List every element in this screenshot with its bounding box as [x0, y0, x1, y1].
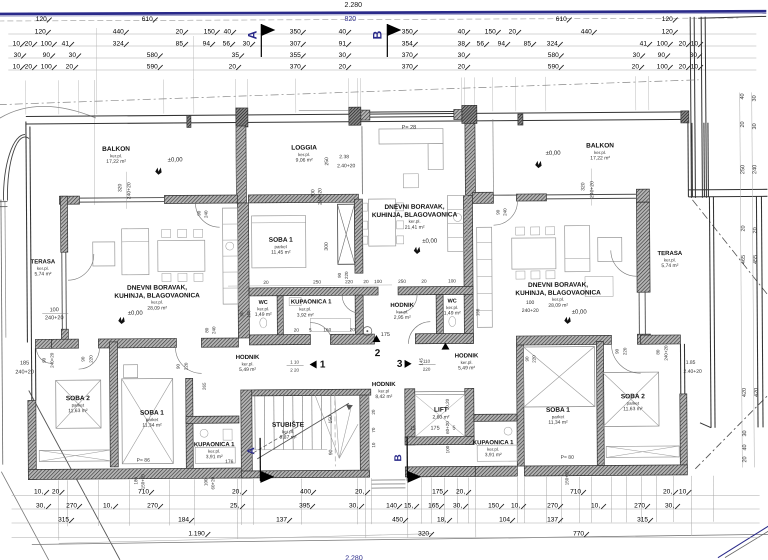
svg-text:SOBA 2: SOBA 2 [621, 393, 645, 400]
svg-text:ker.pl.: ker.pl. [594, 150, 606, 155]
svg-text:40: 40 [339, 29, 347, 36]
svg-text:5: 5 [309, 328, 312, 333]
svg-text:±0,00: ±0,00 [546, 151, 562, 157]
svg-text:450: 450 [392, 516, 403, 523]
svg-text:90: 90 [614, 348, 619, 354]
svg-text:3,91 m²: 3,91 m² [206, 454, 223, 460]
svg-text:SOBA 1: SOBA 1 [546, 407, 570, 414]
svg-text:WC: WC [448, 298, 457, 304]
svg-text:11,63 m²: 11,63 m² [68, 408, 88, 414]
svg-text:370: 370 [402, 52, 413, 59]
svg-text:40: 40 [224, 29, 232, 36]
svg-text:ker.pl.: ker.pl. [552, 297, 564, 302]
svg-text:100: 100 [448, 278, 456, 283]
svg-text:±0,00: ±0,00 [572, 310, 588, 316]
svg-text:10: 10 [679, 488, 687, 495]
svg-text:90: 90 [525, 356, 530, 362]
svg-text:90: 90 [337, 272, 342, 278]
svg-text:3,92 m²: 3,92 m² [297, 312, 314, 318]
svg-text:240: 240 [502, 208, 507, 216]
svg-text:11,63 m²: 11,63 m² [623, 406, 643, 412]
svg-text:150: 150 [204, 29, 215, 36]
svg-text:2.40+20: 2.40+20 [684, 369, 702, 375]
svg-text:ker.pl.: ker.pl. [110, 153, 122, 158]
svg-text:ker.pl.: ker.pl. [208, 449, 220, 454]
svg-text:90: 90 [42, 357, 47, 363]
svg-text:20: 20 [679, 64, 687, 71]
svg-text:455: 455 [753, 255, 759, 264]
svg-text:2 20: 2 20 [290, 368, 299, 373]
svg-text:40: 40 [742, 444, 748, 450]
svg-text:5: 5 [452, 426, 455, 432]
svg-text:100: 100 [657, 41, 668, 48]
svg-text:270: 270 [147, 502, 158, 509]
svg-text:ker.pl: ker.pl [378, 388, 389, 393]
svg-text:580: 580 [147, 52, 158, 59]
svg-text:220: 220 [89, 355, 94, 363]
svg-text:SOBA 1: SOBA 1 [269, 237, 293, 244]
svg-text:100: 100 [41, 64, 52, 71]
svg-text:315: 315 [637, 516, 648, 523]
svg-text:ker.pl.: ker.pl. [242, 361, 254, 366]
svg-text:HODNIK: HODNIK [372, 382, 396, 388]
svg-text:165: 165 [428, 502, 439, 509]
svg-text:184: 184 [178, 516, 189, 523]
svg-text:STUBIŠTE: STUBIŠTE [272, 420, 305, 429]
svg-text:240+20: 240+20 [126, 182, 132, 199]
svg-text:parket: parket [146, 417, 159, 422]
svg-text:56: 56 [223, 41, 231, 48]
svg-text:137: 137 [547, 516, 558, 523]
svg-text:35: 35 [232, 52, 240, 59]
svg-text:610: 610 [142, 16, 153, 23]
svg-text:20: 20 [66, 64, 74, 71]
svg-text:307: 307 [290, 41, 301, 48]
svg-text:90: 90 [328, 449, 334, 455]
svg-text:120: 120 [662, 29, 673, 36]
svg-text:20,: 20, [456, 488, 465, 495]
svg-text:DNEVNI BORAVAK,: DNEVNI BORAVAK, [384, 204, 444, 211]
svg-text:20: 20 [742, 456, 748, 462]
svg-text:ker.pl.: ker.pl. [396, 309, 408, 314]
svg-text:176: 176 [225, 459, 234, 465]
svg-text:HODNIK: HODNIK [236, 355, 260, 361]
svg-text:110: 110 [423, 359, 431, 364]
svg-text:240: 240 [204, 210, 209, 218]
svg-text:175: 175 [432, 488, 443, 495]
svg-text:A: A [245, 30, 259, 39]
svg-text:15: 15 [410, 426, 416, 432]
svg-text:100: 100 [445, 445, 450, 453]
svg-text:120: 120 [35, 29, 46, 36]
svg-text:30,: 30, [453, 502, 462, 509]
svg-text:145: 145 [419, 357, 424, 365]
svg-text:395: 395 [299, 502, 310, 509]
svg-text:100: 100 [50, 307, 59, 313]
svg-text:20: 20 [229, 64, 237, 71]
svg-text:710: 710 [570, 488, 581, 495]
svg-text:20: 20 [176, 29, 184, 36]
svg-text:100: 100 [203, 478, 208, 486]
svg-text:100: 100 [526, 300, 535, 306]
svg-text:KUPAONICA 1: KUPAONICA 1 [194, 442, 235, 448]
svg-text:85: 85 [176, 41, 184, 48]
svg-text:11,34 m²: 11,34 m² [548, 420, 568, 426]
svg-text:9,87 m²: 9,87 m² [280, 435, 297, 441]
svg-text:30: 30 [339, 52, 347, 59]
svg-text:2: 2 [375, 348, 381, 359]
svg-text:20: 20 [753, 227, 759, 233]
svg-text:A: A [246, 447, 257, 454]
svg-text:20: 20 [52, 488, 60, 495]
svg-text:250: 250 [740, 165, 746, 174]
svg-text:10,: 10, [34, 488, 43, 495]
svg-text:320: 320 [418, 530, 429, 537]
svg-text:DNEVNI BORAVAK,: DNEVNI BORAVAK, [528, 282, 588, 289]
svg-text:ker.pl.: ker.pl. [151, 300, 163, 305]
svg-text:20: 20 [263, 280, 269, 285]
svg-text:2.280: 2.280 [345, 2, 363, 9]
svg-text:BALKON: BALKON [586, 142, 614, 149]
svg-text:ker.pl.: ker.pl. [461, 360, 473, 365]
svg-text:175: 175 [430, 426, 439, 432]
svg-text:11,34 m²: 11,34 m² [142, 423, 162, 429]
svg-text:P= 80: P= 80 [561, 455, 574, 461]
svg-text:ker.pl.: ker.pl. [487, 447, 499, 452]
svg-text:30: 30 [243, 41, 251, 48]
svg-text:315: 315 [58, 516, 69, 523]
svg-text:ker.pl.: ker.pl. [409, 219, 421, 224]
svg-text:10,: 10, [511, 502, 520, 509]
svg-text:155: 155 [246, 310, 251, 318]
svg-text:30: 30 [742, 430, 748, 436]
svg-text:30,: 30, [665, 502, 674, 509]
svg-text:2.40+20: 2.40+20 [337, 163, 355, 169]
svg-text:28,09 m²: 28,09 m² [548, 303, 568, 309]
svg-text:P= 28: P= 28 [402, 125, 417, 131]
svg-text:5,74 m²: 5,74 m² [661, 263, 678, 269]
svg-text:91: 91 [339, 41, 347, 48]
svg-text:parket: parket [552, 414, 565, 419]
svg-text:590: 590 [147, 64, 158, 71]
svg-text:90: 90 [81, 356, 86, 362]
svg-text:300: 300 [324, 242, 330, 251]
svg-text:21,41 m²: 21,41 m² [405, 225, 425, 231]
svg-text:420: 420 [742, 388, 748, 397]
svg-text:465: 465 [741, 255, 747, 264]
svg-text:20: 20 [509, 29, 517, 36]
svg-text:710: 710 [138, 488, 149, 495]
svg-text:2.280: 2.280 [345, 555, 363, 560]
svg-text:5,49 m²: 5,49 m² [458, 365, 475, 371]
svg-text:ker.pl.: ker.pl. [664, 257, 676, 262]
svg-text:94: 94 [203, 41, 211, 48]
svg-text:94: 94 [498, 41, 506, 48]
svg-text:265: 265 [202, 382, 207, 390]
svg-text:90: 90 [43, 52, 51, 59]
svg-text:2.38: 2.38 [339, 154, 349, 160]
svg-text:±0,00: ±0,00 [422, 239, 438, 245]
svg-text:350: 350 [290, 29, 301, 36]
svg-text:240+20: 240+20 [317, 188, 323, 205]
svg-text:5,74 m²: 5,74 m² [34, 271, 51, 277]
svg-text:370: 370 [402, 64, 413, 71]
svg-text:P= 86: P= 86 [137, 458, 150, 464]
svg-text:30: 30 [633, 52, 641, 59]
svg-text:30: 30 [69, 52, 77, 59]
svg-text:25,: 25, [230, 502, 239, 509]
svg-text:56: 56 [477, 41, 485, 48]
svg-text:HODNIK: HODNIK [455, 353, 479, 359]
svg-text:40: 40 [458, 29, 466, 36]
svg-text:320: 320 [117, 183, 123, 192]
svg-text:324: 324 [113, 41, 124, 48]
svg-text:270: 270 [66, 502, 77, 509]
svg-text:240+20: 240+20 [45, 315, 64, 321]
svg-text:150: 150 [485, 29, 496, 36]
svg-text:185: 185 [20, 360, 29, 366]
svg-text:220: 220 [423, 367, 431, 372]
svg-text:20: 20 [25, 41, 33, 48]
svg-text:175: 175 [381, 332, 390, 338]
svg-text:320: 320 [580, 182, 586, 191]
svg-text:TERASA: TERASA [31, 259, 56, 265]
svg-text:400: 400 [300, 488, 311, 495]
svg-text:250: 250 [324, 157, 330, 166]
svg-text:420: 420 [754, 388, 760, 397]
svg-text:SOBA 2: SOBA 2 [66, 395, 90, 402]
svg-text:240: 240 [211, 326, 216, 334]
svg-text:324: 324 [547, 41, 558, 48]
svg-text:90: 90 [197, 210, 202, 216]
svg-text:104: 104 [499, 516, 510, 523]
svg-text:350: 350 [402, 29, 413, 36]
svg-text:20: 20 [632, 64, 640, 71]
svg-text:150: 150 [488, 502, 499, 509]
svg-text:HODNIK: HODNIK [390, 303, 414, 309]
svg-text:100: 100 [657, 64, 668, 71]
svg-text:250: 250 [398, 279, 406, 284]
svg-text:250: 250 [313, 279, 321, 284]
svg-text:ker.pl.: ker.pl. [282, 429, 294, 434]
svg-text:180: 180 [133, 476, 138, 484]
svg-text:20: 20 [740, 121, 746, 127]
svg-text:3,91 m²: 3,91 m² [485, 452, 502, 458]
svg-text:150: 150 [328, 415, 334, 424]
svg-text:70: 70 [371, 427, 376, 433]
svg-text:354: 354 [402, 41, 413, 48]
svg-text:300: 300 [310, 189, 316, 198]
svg-text:KUPAONICA 1: KUPAONICA 1 [291, 299, 332, 305]
svg-text:270: 270 [634, 502, 645, 509]
svg-text:240+20: 240+20 [663, 345, 668, 361]
svg-text:1: 1 [320, 359, 326, 370]
svg-text:ker.pl.: ker.pl. [298, 152, 310, 157]
svg-text:220: 220 [344, 271, 349, 279]
svg-text:9,06 m²: 9,06 m² [296, 157, 313, 163]
svg-text:90: 90 [658, 52, 666, 59]
svg-text:5,49 m²: 5,49 m² [239, 367, 256, 373]
svg-text:B: B [393, 454, 404, 461]
svg-text:85: 85 [524, 41, 532, 48]
svg-text:240+20: 240+20 [49, 352, 54, 368]
svg-text:137: 137 [276, 516, 287, 523]
svg-text:ker.pl.: ker.pl. [446, 305, 458, 310]
svg-text:20: 20 [363, 279, 369, 284]
svg-text:15,: 15, [404, 502, 413, 509]
svg-text:10,: 10, [103, 502, 112, 509]
svg-text:355: 355 [290, 52, 301, 59]
svg-text:220: 220 [532, 355, 537, 363]
svg-text:60+20: 60+20 [210, 476, 215, 489]
svg-text:parket: parket [627, 401, 640, 406]
svg-text:20: 20 [458, 64, 466, 71]
svg-text:20: 20 [25, 64, 33, 71]
svg-text:30,: 30, [36, 502, 45, 509]
svg-text:370: 370 [290, 64, 301, 71]
svg-text:BALKON: BALKON [102, 146, 130, 153]
svg-text:90: 90 [176, 363, 181, 369]
svg-text:770: 770 [573, 530, 584, 537]
svg-text:610: 610 [556, 16, 567, 23]
svg-text:17,22 m²: 17,22 m² [590, 155, 610, 161]
svg-text:parket: parket [274, 244, 287, 249]
svg-text:41: 41 [640, 41, 648, 48]
svg-text:590: 590 [548, 64, 559, 71]
svg-text:20: 20 [350, 327, 356, 332]
svg-text:240: 240 [752, 165, 758, 174]
svg-text:100: 100 [41, 41, 52, 48]
svg-text:±0,00: ±0,00 [168, 157, 184, 163]
svg-text:10,: 10, [591, 502, 600, 509]
svg-text:155: 155 [475, 308, 480, 316]
svg-text:28,09 m²: 28,09 m² [147, 306, 167, 312]
svg-text:10: 10 [371, 442, 376, 448]
svg-text:30: 30 [14, 52, 22, 59]
svg-text:60+20: 60+20 [445, 421, 450, 434]
svg-text:220: 220 [622, 347, 627, 355]
svg-text:30: 30 [752, 123, 758, 129]
svg-text:150+20: 150+20 [140, 474, 145, 490]
svg-text:140: 140 [386, 502, 397, 509]
svg-text:440: 440 [581, 29, 592, 36]
svg-text:ker.pl.: ker.pl. [257, 306, 269, 311]
svg-text:120: 120 [36, 16, 47, 23]
svg-text:240+20: 240+20 [15, 369, 34, 375]
svg-text:20: 20 [421, 279, 427, 284]
svg-text:100: 100 [374, 279, 382, 284]
svg-text:DNEVNI BORAVAK,: DNEVNI BORAVAK, [127, 284, 187, 291]
svg-text:440: 440 [113, 29, 124, 36]
svg-text:2,60 m²: 2,60 m² [432, 415, 449, 421]
svg-text:160: 160 [323, 327, 331, 332]
svg-text:150+20: 150+20 [564, 470, 569, 486]
svg-text:80: 80 [204, 327, 209, 333]
svg-text:11,45 m²: 11,45 m² [271, 250, 291, 256]
svg-text:270: 270 [547, 502, 558, 509]
svg-text:41: 41 [62, 41, 70, 48]
svg-text:120: 120 [662, 16, 673, 23]
svg-text:1.85: 1.85 [686, 360, 696, 366]
svg-text:ker.pl.: ker.pl. [37, 266, 49, 271]
svg-text:3: 3 [397, 359, 403, 370]
svg-text:parket: parket [72, 403, 85, 408]
svg-text:240+20: 240+20 [589, 181, 595, 198]
svg-text:30: 30 [752, 95, 758, 101]
svg-text:90: 90 [496, 209, 501, 215]
svg-text:38: 38 [458, 41, 466, 48]
svg-text:20,: 20, [232, 488, 241, 495]
svg-text:ker.pl.: ker.pl. [299, 307, 311, 312]
svg-text:580: 580 [548, 52, 559, 59]
svg-text:18,: 18, [437, 516, 446, 523]
svg-text:1,49 m²: 1,49 m² [255, 312, 272, 318]
svg-text:240+20: 240+20 [522, 308, 539, 314]
svg-text:20: 20 [741, 225, 747, 231]
svg-text:30: 30 [458, 52, 466, 59]
svg-text:20,: 20, [355, 488, 364, 495]
svg-text:2,95 m²: 2,95 m² [394, 315, 411, 321]
svg-text:30,: 30, [349, 502, 358, 509]
svg-text:17,22 m²: 17,22 m² [106, 159, 126, 165]
svg-text:WC: WC [259, 300, 268, 306]
svg-text:10,20: 10,20 [445, 398, 450, 410]
svg-text:10: 10 [13, 64, 21, 71]
svg-text:220: 220 [184, 362, 189, 370]
svg-text:±0,00: ±0,00 [128, 311, 144, 317]
svg-text:20: 20 [339, 64, 347, 71]
svg-text:1.190: 1.190 [188, 530, 205, 537]
svg-text:10: 10 [13, 41, 21, 48]
svg-text:TERASA: TERASA [657, 251, 682, 257]
svg-text:20: 20 [679, 41, 687, 48]
svg-text:20: 20 [294, 328, 300, 333]
svg-text:SOBA 1: SOBA 1 [140, 410, 164, 417]
svg-text:20,: 20, [663, 488, 672, 495]
svg-text:40: 40 [740, 93, 746, 99]
svg-text:B: B [370, 30, 384, 39]
svg-text:LOGGIA: LOGGIA [291, 144, 317, 151]
svg-text:8,42 m²: 8,42 m² [375, 394, 392, 400]
svg-text:1 10: 1 10 [290, 360, 299, 365]
svg-text:KUPAONICA 1: KUPAONICA 1 [473, 440, 514, 446]
svg-text:1,49 m²: 1,49 m² [444, 310, 461, 316]
svg-text:90: 90 [239, 311, 244, 317]
svg-text:80: 80 [655, 349, 660, 355]
svg-text:20: 20 [371, 409, 376, 415]
